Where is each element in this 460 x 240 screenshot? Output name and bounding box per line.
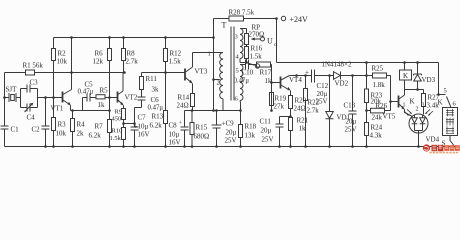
svg-text:24Ω: 24Ω: [177, 102, 189, 110]
resistor R22 2.7k: [305, 76, 307, 147]
svg-text:VT2: VT2: [125, 94, 138, 102]
wire: primary bottom lead: [222, 99, 224, 111]
svg-text:VT1: VT1: [51, 105, 64, 113]
svg-text:1.8k: 1.8k: [373, 81, 386, 89]
resistor R13 6.2k: [164, 111, 168, 124]
wire: left vertical rail x=4 (broken at C1): [4, 73, 6, 147]
svg-text:R13: R13: [152, 113, 164, 121]
wire: VT5 emitter into VD4: [405, 110, 413, 117]
wire: R12 lead down to R13: [165, 73, 167, 111]
node: R6/R7 line meets base wire: [108, 96, 111, 99]
svg-text:1: 1: [403, 103, 406, 109]
svg-text:R21: R21: [297, 117, 309, 125]
svg-text:R26: R26: [376, 102, 388, 110]
svg-text:K: K: [403, 72, 408, 80]
resistor R6 12k: [109, 38, 111, 98]
node: VD1 top: [328, 74, 331, 77]
resistor R7 6.2k: [109, 98, 111, 147]
resistor R12 1.5k: [165, 38, 167, 73]
capacitor C7 10u 16V: [124, 124, 139, 147]
svg-text:1k: 1k: [299, 125, 307, 133]
resistor R27 3.4k: [423, 90, 425, 115]
wire: SJT input wire y=97: [5, 97, 21, 99]
wire: VT3 emitter to R14: [192, 84, 194, 111]
wire: C3/C4 parallel loop: [21, 89, 38, 108]
svg-text:20μ: 20μ: [346, 118, 357, 126]
potentiometer RP 270: [245, 34, 249, 45]
svg-text:1N4148×2: 1N4148×2: [322, 61, 353, 69]
node: C2 tap: [44, 96, 47, 99]
svg-text:R7: R7: [95, 123, 104, 131]
transformer T primary winding (taps 1,2): [220, 53, 223, 99]
node: R19 bottom: [270, 109, 273, 112]
node: R6 top on rail: [108, 36, 111, 39]
svg-text:C4: C4: [27, 114, 36, 122]
wire: VT2 collector riser: [122, 73, 124, 92]
resistor R23 20k: [365, 89, 369, 103]
svg-text:VD4: VD4: [426, 136, 440, 144]
svg-text:1.5k: 1.5k: [110, 135, 122, 142]
node: R4 tap: [71, 109, 74, 112]
wire: VT4 emitter to R20: [290, 91, 292, 147]
transistor VT3: [184, 69, 186, 81]
svg-text:24k: 24k: [372, 114, 383, 122]
svg-text:R20: R20: [295, 97, 307, 105]
node: VT4 base tap: [270, 81, 273, 84]
wire: contact stub: [439, 94, 446, 96]
svg-text:VT5: VT5: [383, 113, 396, 121]
node: rail/collector junctions x=71: [70, 36, 73, 39]
wire: VT1 emitter riser and emitter net y=110: [71, 106, 110, 111]
svg-text:C6: C6: [151, 96, 160, 104]
transformer T upper secondary winding (taps 3,4): [240, 29, 243, 59]
svg-text:25V: 25V: [316, 98, 328, 106]
resistor R18 13k: [240, 111, 242, 147]
node: feed line x=213: [212, 109, 215, 112]
resistor R1 56k: [26, 70, 35, 75]
svg-text:R11: R11: [146, 75, 158, 83]
wire: relay bottom net y=88: [405, 89, 424, 91]
node: R16 bottom / tap4: [245, 61, 248, 64]
svg-text:25V: 25V: [262, 136, 274, 144]
svg-text:C3: C3: [30, 79, 39, 87]
svg-text:1.5k: 1.5k: [169, 58, 182, 66]
light arrows right of VD4: [426, 109, 434, 115]
transistor VT5: [398, 96, 400, 108]
svg-text:R19: R19: [275, 95, 287, 103]
switch S blade: [450, 141, 456, 148]
svg-text:16V: 16V: [138, 131, 150, 139]
node: R9/R10/C7 junction: [122, 122, 125, 125]
transistor VT2: [117, 92, 119, 103]
light arrows left of VD4: [404, 109, 412, 115]
crystal SJT: [9, 93, 16, 102]
wire: tap5 to C10: [240, 64, 246, 66]
wire: bottom ground rail y=146: [5, 146, 457, 148]
transformer core: [231, 27, 234, 101]
svg-text:R1 56k: R1 56k: [23, 62, 44, 70]
svg-text:R5: R5: [100, 87, 109, 95]
svg-text:6.2k: 6.2k: [89, 132, 102, 140]
svg-text:5: 5: [236, 68, 239, 75]
svg-text:U: U: [267, 37, 273, 46]
node: R8 top on rail: [122, 36, 125, 39]
wire: VT5 collector riser: [404, 90, 406, 96]
node: R14 bottom: [191, 109, 194, 112]
capacitor C5 0.47u: [87, 94, 96, 102]
svg-text:C7: C7: [138, 114, 147, 122]
svg-text:R10: R10: [112, 128, 123, 135]
svg-text:25V: 25V: [345, 126, 357, 134]
svg-text:0.47μ: 0.47μ: [234, 78, 250, 85]
svg-text:VT3: VT3: [195, 68, 208, 76]
svg-text:4.3k: 4.3k: [370, 132, 383, 140]
wire: R28 feed line x=213 from +24V row to y=110: [213, 19, 215, 111]
transistor VT4: [280, 77, 282, 89]
capacitor C2: [42, 98, 50, 147]
svg-text:C10: C10: [242, 69, 254, 77]
resistor R11 3k: [141, 73, 143, 77]
svg-text:13k: 13k: [245, 132, 256, 140]
svg-text:3: 3: [235, 34, 238, 41]
watermark logo: [423, 144, 460, 152]
buzzer glyph 3: [446, 126, 454, 134]
svg-text:+10μ: +10μ: [134, 123, 149, 131]
svg-text:2: 2: [217, 80, 220, 87]
svg-text:3k: 3k: [152, 86, 160, 94]
svg-text:27k: 27k: [274, 103, 285, 111]
svg-text:R3: R3: [58, 121, 67, 129]
node: R8/VT2 collector on y=72 net: [123, 71, 126, 74]
wire: loop output to VT1 base y=97: [38, 97, 63, 99]
wire: C6 bottom jog to C7 line: [135, 100, 142, 124]
svg-text:450: 450: [112, 116, 122, 123]
svg-text:R9: R9: [115, 109, 123, 116]
node: tap6/R18: [239, 109, 242, 112]
svg-text:R16: R16: [251, 45, 263, 53]
resistor R16 1.5k: [246, 45, 248, 63]
resistor R10 1k: [122, 128, 126, 140]
node: emitter net joins VT2 base line: [108, 109, 111, 112]
capacitor C3: [27, 85, 30, 93]
svg-text:R14: R14: [178, 94, 190, 102]
node: VD3 bottom: [416, 88, 419, 91]
resistor R26 24k: [367, 110, 391, 112]
node: VD3 top: [416, 61, 419, 64]
resistor R14 24ohm: [191, 94, 195, 107]
wire: VT1 collector riser to rail x=71: [71, 38, 73, 90]
wire: +24V distribution (riser x=276, run y=62, drop x=438): [277, 19, 439, 95]
buzzer box (sounder): [443, 108, 458, 136]
transistor VT1: [62, 92, 64, 103]
node: R22 top: [304, 74, 307, 77]
svg-text:2: 2: [416, 107, 419, 113]
capacitor C4 (variable, arrow): [25, 103, 33, 112]
switch K relay contact blade: [447, 97, 452, 108]
wire: C11 branch: [280, 117, 291, 125]
wire: buzzer to switch S: [449, 136, 451, 141]
svg-text:R8: R8: [127, 50, 136, 58]
svg-text:10μ: 10μ: [169, 131, 180, 139]
wire: +24V input row y=18: [214, 18, 277, 20]
wire: bias chain x=366: [366, 63, 368, 147]
svg-text:25V: 25V: [225, 137, 237, 145]
capacitor C9 20u 25V: [212, 111, 222, 147]
svg-text:R24: R24: [371, 124, 383, 132]
svg-text:20μ: 20μ: [261, 127, 272, 135]
resistor R24 4.3k: [365, 123, 369, 136]
svg-text:+: +: [305, 69, 309, 77]
resistor R4 2k: [72, 111, 74, 147]
svg-text:VD3: VD3: [422, 76, 436, 84]
resistor R2 10k: [53, 38, 55, 98]
svg-text:C12: C12: [317, 82, 329, 90]
svg-text:o: o: [274, 42, 277, 48]
svg-text:SJT: SJT: [6, 86, 18, 94]
svg-text:K: K: [438, 99, 443, 107]
node: transformer tap2 junction: [212, 78, 215, 81]
resistor R5 1k: [96, 95, 105, 99]
wiper arrow of RP: [253, 38, 261, 40]
node: R12 top on rail: [164, 36, 167, 39]
capacitor C12 20u 25V (polarized): [312, 70, 315, 83]
node: VD4 ground: [417, 145, 420, 148]
wire: tap3 to RP: [240, 29, 247, 34]
wire: tap4 to R16 bottom node: [240, 59, 247, 63]
svg-text:270Ω: 270Ω: [249, 31, 265, 39]
capacitor C10 0.47u: [246, 60, 257, 70]
node: collector wire junction: [295, 74, 298, 77]
wire: VT5 base line x=390: [390, 76, 392, 111]
node: R26 left: [365, 109, 368, 112]
buzzer glyph 2: [446, 118, 454, 126]
svg-text:VT4: VT4: [289, 76, 302, 84]
wire: VT2 emitter chain: [123, 106, 125, 147]
node: C13 top: [351, 74, 354, 77]
diode VD2 1N4148: [334, 72, 341, 80]
svg-text:C1: C1: [11, 126, 20, 134]
wire: detector net y=75 (VT4 collector to R25): [290, 75, 367, 77]
diode VD3 (flyback): [414, 63, 422, 90]
svg-text:T: T: [222, 21, 227, 30]
svg-text:R4: R4: [77, 121, 86, 129]
node: relay contact fixed point: [437, 93, 440, 96]
wire: top supply rail y=37: [54, 37, 214, 39]
diode VD4 left element: [412, 115, 418, 131]
resistor R3 10k: [53, 98, 55, 147]
node: relay K top: [403, 61, 406, 64]
node: rail tap x=213: [212, 36, 215, 39]
svg-text:R6: R6: [95, 50, 104, 58]
svg-text:K: K: [410, 98, 415, 106]
wire: R5 to VT2 base: [105, 97, 118, 99]
resistor R19 27k: [270, 93, 274, 106]
node: +24V junction: [275, 17, 278, 20]
wire: VD4 common bottom to ground: [415, 131, 423, 147]
wire: tap6 lead down: [239, 101, 242, 111]
node: R12/R11 chain on y=72 net: [164, 71, 167, 74]
svg-text:C2: C2: [32, 126, 41, 134]
node: SJT on left rail: [3, 96, 6, 99]
svg-text:0.47μ: 0.47μ: [148, 105, 164, 112]
svg-text:0.47μ: 0.47μ: [78, 88, 94, 96]
svg-text:C13: C13: [344, 102, 356, 110]
wire: ground reference stub with terminal: [247, 63, 255, 66]
svg-text:R15: R15: [196, 124, 208, 132]
node: R2/R3 divider tap to VT1 base: [52, 96, 55, 99]
node: R20/R21/C11 junction: [289, 115, 292, 118]
node: detector joins bias chain: [365, 74, 368, 77]
capacitor C13 20u 25V: [349, 76, 357, 147]
resistor R20 24ohm: [289, 96, 293, 109]
resistor R9 450: [122, 109, 126, 120]
node: C9 top: [215, 109, 218, 112]
svg-text:12k: 12k: [93, 58, 104, 66]
resistor R17 1k: [257, 62, 271, 67]
capacitor C1: [1, 126, 9, 129]
svg-text:3: 3: [422, 103, 425, 109]
node: R25/R23 chain top: [365, 61, 368, 64]
svg-text:24Ω: 24Ω: [294, 105, 306, 113]
svg-text:+C9: +C9: [222, 120, 235, 128]
svg-text:680Ω: 680Ω: [194, 133, 210, 141]
node: VT5 base tap: [389, 100, 392, 103]
resistor R28 7.5k: [229, 16, 244, 21]
svg-text:5: 5: [444, 88, 447, 95]
opto/LED pair VD4: [409, 114, 428, 133]
diode VD4 right element: [420, 115, 426, 131]
wire: output stage bottom net y=110: [185, 110, 241, 112]
svg-text:R12: R12: [170, 50, 182, 58]
svg-text:20μ: 20μ: [226, 129, 237, 137]
wire: tap2 stub: [214, 79, 220, 81]
svg-text:C8: C8: [169, 122, 178, 130]
svg-text:R25: R25: [372, 65, 384, 73]
svg-text:10k: 10k: [56, 130, 67, 138]
terminal +24V: [281, 16, 285, 20]
svg-text:16V: 16V: [169, 139, 181, 147]
wire: base stub to VT5: [391, 101, 399, 103]
capacitor C8 10u 16V: [181, 111, 189, 147]
relay coil K: [404, 63, 406, 90]
junction dots on ground rail: [44, 145, 368, 148]
svg-text:1: 1: [208, 51, 211, 58]
svg-text:1k: 1k: [98, 101, 106, 109]
svg-text:VD2: VD2: [335, 80, 349, 88]
svg-text:R18: R18: [245, 123, 257, 131]
resistor R25 1.8k: [367, 75, 391, 77]
svg-text:R2: R2: [58, 50, 67, 58]
svg-text:2k: 2k: [77, 130, 85, 138]
capacitor C6 0.47u: [138, 90, 146, 101]
capacitor C11 20u 25V: [276, 124, 284, 147]
diode VD1 1N4148 (vertical): [326, 76, 334, 147]
svg-text:2.7k: 2.7k: [307, 107, 320, 115]
svg-text:+24V: +24V: [290, 15, 309, 24]
svg-text:1k: 1k: [265, 77, 273, 85]
svg-text:1.5k: 1.5k: [250, 53, 263, 61]
wire: VT3 collector riser to transformer tap 1: [193, 53, 224, 68]
svg-text:6.2k: 6.2k: [150, 122, 163, 130]
wire: C5 riser from emitter net: [83, 98, 88, 111]
wire: R17 to VT4 base corner: [271, 65, 272, 111]
svg-text:R17: R17: [260, 69, 272, 77]
svg-text:C11: C11: [260, 118, 272, 126]
wire: base wire to VT4: [272, 82, 281, 84]
wire: main horizontal net y=72 from R1 to VT3 base: [5, 72, 185, 74]
svg-text:10k: 10k: [57, 58, 68, 66]
buzzer glyph 1: [446, 109, 454, 117]
terminal Uo: [261, 37, 265, 41]
resistor R15 680ohm: [191, 111, 193, 147]
svg-text:R28 7.5k: R28 7.5k: [229, 9, 255, 17]
resistor R8 2.7k: [123, 38, 125, 73]
transformer T lower secondary winding (taps 5,6): [240, 65, 243, 101]
svg-text:2.7k: 2.7k: [126, 58, 139, 66]
resistor R21 1k: [289, 118, 293, 131]
